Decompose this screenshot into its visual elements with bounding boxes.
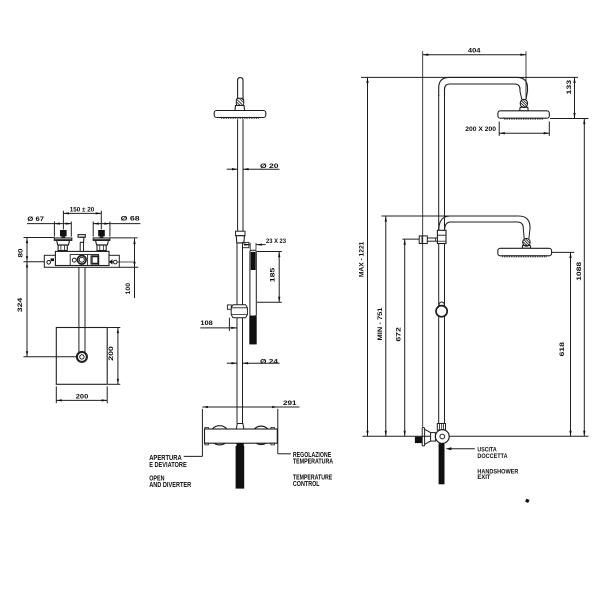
dim Ø24 line <box>227 362 280 364</box>
rain head ball <box>520 99 527 107</box>
svg-text:185: 185 <box>270 267 277 282</box>
dim MIN-751 label <box>377 307 384 340</box>
dim Ø67 extension left <box>53 222 55 237</box>
mixer inner panel <box>70 255 98 266</box>
wall anchor <box>415 437 422 443</box>
dim 200v line <box>117 328 119 385</box>
head nozzles <box>222 117 259 119</box>
upper arm tube <box>238 78 243 99</box>
handshower hook <box>243 242 249 247</box>
wall connection circle <box>77 352 87 362</box>
upper arm inner <box>445 84 521 96</box>
mixer inlet joint <box>236 424 244 430</box>
riser pipe <box>439 95 445 424</box>
outlet ring <box>78 255 87 264</box>
centre adapter cap <box>78 235 85 238</box>
dim 1088 line <box>583 119 585 437</box>
right valve cone <box>96 240 109 245</box>
function square <box>91 256 99 265</box>
dim 80 label <box>18 248 25 257</box>
hand head disc <box>498 248 552 256</box>
dim 23x23 label <box>266 238 286 245</box>
lower arm outer <box>439 216 530 230</box>
centreline to 100 dim <box>117 261 134 263</box>
dim Ø68 extension right <box>109 222 111 237</box>
dim 291 line <box>202 406 299 408</box>
diverter bump <box>439 302 444 307</box>
dim 200v extension top <box>108 327 121 329</box>
dim 23x23 line <box>244 243 266 250</box>
upper arm taper <box>520 91 528 100</box>
handshower wand body <box>250 250 256 316</box>
head nut <box>235 106 245 111</box>
slider clamp knob <box>227 305 231 309</box>
svg-text:1088: 1088 <box>576 262 583 281</box>
lower arm inner <box>445 222 524 230</box>
svg-text:Ø 67: Ø 67 <box>27 216 44 223</box>
dim 404 extension right <box>525 51 527 100</box>
dim 200h extension left <box>55 386 57 403</box>
dim 291 extension left <box>201 409 203 457</box>
svg-text:E DEVIATORE: E DEVIATORE <box>149 460 187 469</box>
dim Ø68 line <box>93 222 140 224</box>
left valve flange <box>54 238 72 240</box>
note APERTURA <box>149 453 187 469</box>
svg-text:Ø 24: Ø 24 <box>260 358 278 365</box>
ink speck <box>525 499 529 503</box>
outlet top connector <box>437 424 445 431</box>
upper pipe <box>238 119 243 231</box>
dim MAX-1221 line <box>366 77 368 436</box>
dim 100 extension top <box>110 237 138 239</box>
leader line left <box>184 455 203 457</box>
dim 200x200 extension right <box>548 122 550 136</box>
mixer left knob <box>210 426 229 445</box>
dim 200v label <box>108 346 115 361</box>
dim 108 label <box>200 320 213 327</box>
dim 200h line <box>56 399 107 401</box>
dim 200x200 extension left <box>498 122 500 136</box>
leader handshower exit <box>445 447 474 450</box>
dim 100 label <box>125 283 132 295</box>
dim 108 extension <box>228 318 230 331</box>
svg-text:DOCCETTA: DOCCETTA <box>477 453 507 460</box>
svg-text:80: 80 <box>18 248 25 257</box>
dim 80 extension bottom <box>24 261 45 263</box>
dim 200h label <box>76 393 89 400</box>
dim 150±20 label <box>70 207 95 214</box>
handshower hose outlet <box>439 443 445 484</box>
head ball joint <box>236 98 243 105</box>
leader line right <box>278 453 291 455</box>
pipe collar <box>236 231 245 243</box>
dim Ø68 extension left <box>92 222 94 237</box>
svg-text:Ø 68: Ø 68 <box>121 215 140 222</box>
note USCITA <box>477 447 507 460</box>
dim 404 label <box>468 47 481 54</box>
note REGOLAZIONE <box>293 450 334 466</box>
dim 100 extension bottom <box>119 266 138 268</box>
centre adapter neck <box>80 237 84 242</box>
head level extension <box>550 118 589 120</box>
dim Ø67 extension right <box>70 222 72 237</box>
mixer body bar <box>205 429 278 443</box>
dim 404 line <box>423 54 526 56</box>
dim 100 line <box>133 239 135 299</box>
rain head nozzles <box>504 118 542 120</box>
hand head nozzles <box>503 255 546 257</box>
note HANDSHOWER <box>477 468 518 481</box>
shower head disc <box>214 111 266 118</box>
dim 672 label <box>395 327 402 342</box>
dim 185 extension top <box>257 251 282 253</box>
diverter ball <box>436 306 447 317</box>
dim 185 label <box>270 267 277 282</box>
dim 80 line <box>26 238 28 262</box>
upper arm outer <box>439 77 528 96</box>
wall plate 200x200 <box>56 328 107 385</box>
left valve cone <box>57 240 70 245</box>
rain head nut <box>520 107 529 111</box>
mixer bar <box>55 251 109 265</box>
lower arm taper <box>523 229 530 239</box>
svg-text:133: 133 <box>566 80 573 95</box>
hand head ball <box>523 238 530 246</box>
dim MIN-751 line <box>385 216 387 436</box>
dim MAX-1221 label <box>359 241 366 277</box>
mixer outlet <box>237 443 244 450</box>
centre adapter tube <box>80 242 83 265</box>
panel pilot hole <box>72 258 76 262</box>
mixer right knob <box>252 426 270 444</box>
dim Ø20 label <box>260 163 279 170</box>
svg-text:EXIT: EXIT <box>477 474 491 481</box>
dim Ø68 label <box>121 215 140 222</box>
dim 150±20 line <box>63 212 101 214</box>
svg-text:618: 618 <box>559 342 566 357</box>
wall bracket stem <box>427 238 437 241</box>
mixer hose <box>236 446 245 489</box>
rain head disc <box>498 111 549 118</box>
dim Ø67 label <box>27 216 44 223</box>
dim 324 line <box>26 262 28 357</box>
svg-text:CONTROL: CONTROL <box>293 479 320 488</box>
slider clamp body <box>231 305 247 318</box>
right valve base ring <box>97 245 106 250</box>
dim 133 label <box>566 80 573 95</box>
note OPEN <box>149 474 192 490</box>
mixer backplate <box>44 255 119 267</box>
note TEMPERATURE <box>293 472 332 488</box>
arm level extension <box>382 215 450 217</box>
svg-text:23 X 23: 23 X 23 <box>266 238 286 245</box>
svg-text:324: 324 <box>17 297 24 312</box>
handshower grip <box>251 252 256 270</box>
dim 291 extension right <box>277 409 279 454</box>
handshower hose <box>249 316 256 344</box>
svg-text:200: 200 <box>76 393 89 400</box>
dim Ø24 label <box>260 358 278 365</box>
wall bracket knob <box>419 236 427 244</box>
dim 324 label <box>17 297 24 312</box>
dim Ø67 line <box>27 222 71 224</box>
svg-text:200: 200 <box>108 346 115 361</box>
dim 324 extension bottom <box>24 356 78 358</box>
svg-text:291: 291 <box>283 400 297 407</box>
baseline <box>363 435 589 437</box>
dim 200v extension bottom <box>108 383 121 385</box>
dim 1088 label <box>576 262 583 281</box>
dim 185 line <box>278 252 280 303</box>
svg-text:100: 100 <box>125 283 132 295</box>
dim 618 line <box>569 252 571 436</box>
hand head nut <box>522 245 531 248</box>
left ear screw <box>47 258 54 264</box>
svg-text:404: 404 <box>468 47 481 54</box>
lower pipe <box>237 243 243 424</box>
riser tee <box>437 230 446 243</box>
dim 200h extension right <box>106 386 108 403</box>
svg-text:108: 108 <box>200 320 213 327</box>
dim 108 line <box>200 327 237 329</box>
supply pipe <box>79 267 85 352</box>
dim 185 extension bottom <box>257 301 282 303</box>
svg-text:200 X 200: 200 X 200 <box>465 126 496 133</box>
right valve cap <box>98 230 105 238</box>
dim 672 line <box>404 239 406 436</box>
left valve base ring <box>58 245 67 250</box>
dim 80 extension top <box>24 237 55 239</box>
dim 150±20 extension left <box>62 211 64 230</box>
svg-text:TEMPERATURA: TEMPERATURA <box>293 457 334 466</box>
svg-text:MIN - 751: MIN - 751 <box>377 307 384 340</box>
dim 618 label <box>559 342 566 357</box>
svg-text:AND DIVERTER: AND DIVERTER <box>149 480 192 489</box>
dim 133 line <box>573 77 575 118</box>
dim 150±20 extension right <box>100 211 102 230</box>
dim 291 label <box>283 400 297 407</box>
svg-text:672: 672 <box>395 327 402 342</box>
wall flange <box>422 428 430 446</box>
flange stem <box>431 433 436 442</box>
dim Ø20 line <box>227 168 280 170</box>
left valve cap <box>60 230 67 238</box>
dim 200x200 line <box>499 132 549 134</box>
hand head level extension <box>552 251 574 253</box>
dim 404 extension left <box>422 51 424 427</box>
dim 200x200 label <box>465 126 496 133</box>
top reference line <box>361 76 578 78</box>
outlet valve <box>435 430 449 444</box>
mixer mounting tabs <box>205 427 275 445</box>
right valve flange <box>93 238 110 240</box>
right ear screw <box>109 259 117 264</box>
dim 672 extension <box>402 238 419 240</box>
svg-text:150 ± 20: 150 ± 20 <box>70 207 95 214</box>
svg-text:MAX - 1221: MAX - 1221 <box>359 241 366 277</box>
